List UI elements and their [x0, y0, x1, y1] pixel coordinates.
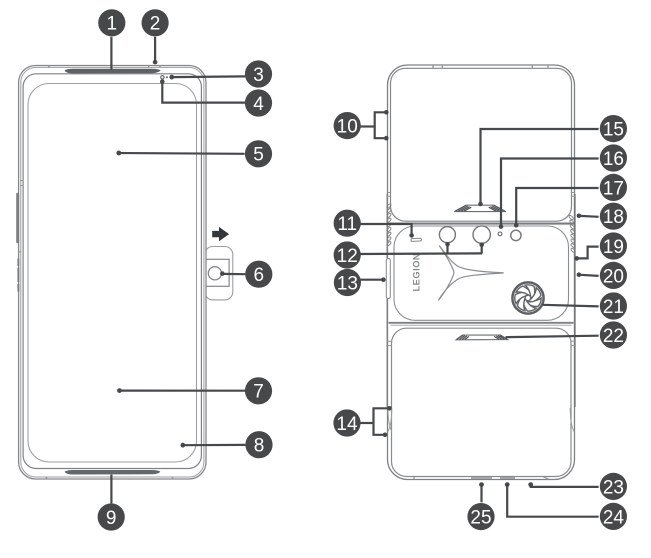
leader end dots (back)	[381, 110, 581, 487]
middle camera strip	[394, 226, 569, 320]
label 2	[142, 9, 169, 36]
label 7	[245, 377, 272, 404]
label 8	[245, 431, 272, 458]
leader 7	[120, 390, 246, 392]
back frame side ticks	[387, 192, 391, 194]
antenna tick near mic	[148, 66, 150, 68]
camera module lens	[208, 267, 221, 280]
label 13	[334, 269, 361, 296]
svg-text:1: 1	[107, 14, 118, 35]
mic hook (11 target)	[411, 238, 422, 241]
svg-text:6: 6	[254, 265, 265, 286]
leader 2	[154, 37, 156, 61]
label 16	[600, 144, 627, 171]
earpiece speaker	[65, 69, 161, 74]
pop-up camera seam (15 target)	[454, 205, 506, 211]
SIM tray (left edge)	[386, 259, 390, 299]
arrow (pop-up direction)	[212, 227, 229, 241]
svg-text:2: 2	[150, 14, 161, 35]
svg-text:16: 16	[603, 149, 624, 170]
leader 23	[531, 485, 599, 487]
svg-text:5: 5	[253, 145, 264, 166]
rear camera 1	[439, 227, 455, 243]
label 25	[467, 503, 494, 530]
leader 3	[172, 75, 246, 78]
label 22	[600, 321, 627, 348]
bottom speaker grille (22 target)	[456, 335, 508, 340]
svg-text:LEGION: LEGION	[412, 253, 422, 292]
back body outer outline	[388, 65, 575, 480]
back top edge antenna ticks	[432, 65, 434, 68]
label 3	[245, 60, 272, 87]
sensor dot	[166, 76, 168, 78]
leader 25	[480, 485, 482, 503]
svg-text:22: 22	[603, 326, 624, 347]
label 6	[245, 261, 272, 288]
volume key (left edge)	[16, 193, 19, 243]
left side vent	[386, 203, 391, 246]
camera module inner square	[206, 259, 229, 286]
front body outer outline	[19, 66, 206, 480]
svg-text:23: 23	[603, 477, 624, 498]
svg-text:19: 19	[603, 237, 624, 258]
svg-text:15: 15	[603, 120, 624, 141]
label 15	[600, 115, 627, 142]
svg-text:10: 10	[337, 117, 358, 138]
left edge slot segments	[17, 259, 19, 267]
front screen	[28, 84, 197, 463]
label 14	[333, 409, 360, 436]
label 9	[98, 503, 125, 530]
leader 13	[358, 279, 382, 281]
front bezel line	[23, 74, 201, 469]
svg-text:24: 24	[603, 507, 625, 528]
Legion Y logo	[438, 246, 503, 301]
antenna tick top-left	[48, 66, 50, 68]
svg-text:13: 13	[337, 273, 358, 294]
svg-text:7: 7	[253, 382, 264, 403]
leader 4	[162, 82, 245, 102]
pop-up camera module (right side of front phone)	[205, 247, 233, 300]
leader 24	[507, 485, 598, 517]
label 10	[334, 112, 361, 139]
leader 17	[516, 188, 598, 224]
glass merge curves bottom corners	[388, 408, 392, 432]
antenna tick bottom edge	[46, 477, 48, 479]
label 12	[334, 241, 361, 268]
leader 18	[580, 215, 599, 218]
leader 10	[360, 125, 375, 127]
bottom speaker	[65, 470, 161, 475]
leader end dots (front)	[116, 60, 224, 448]
front body second outline	[21, 67, 204, 477]
svg-text:21: 21	[603, 297, 624, 318]
svg-text:17: 17	[603, 178, 624, 199]
leader 1	[110, 37, 112, 70]
leader 12	[360, 252, 482, 255]
leader 14	[361, 422, 374, 424]
right side vent	[569, 215, 576, 253]
leader 11	[360, 224, 412, 234]
label 19	[600, 232, 627, 259]
svg-text:18: 18	[603, 207, 624, 228]
label 18	[600, 203, 627, 230]
label 5	[245, 140, 272, 167]
leader 16	[501, 159, 599, 226]
leader 19	[578, 247, 599, 259]
label 24	[600, 503, 627, 530]
laser sensor (16 target)	[498, 232, 502, 236]
leader 6	[222, 273, 245, 276]
back bottom glass panel	[392, 328, 572, 476]
svg-text:9: 9	[106, 508, 117, 529]
divider bottom dark	[389, 322, 574, 324]
middle frame dark rails	[574, 194, 576, 407]
label 20	[600, 262, 627, 289]
label 4	[245, 89, 272, 116]
svg-text:20: 20	[603, 266, 624, 287]
front camera sensor (ring)	[161, 76, 164, 79]
fan (21 target)	[512, 282, 543, 313]
svg-text:8: 8	[254, 436, 265, 457]
side tick left lower	[18, 251, 21, 253]
divider bottom light	[391, 324, 572, 326]
svg-text:14: 14	[336, 414, 358, 435]
leader 8	[183, 444, 246, 447]
rear camera 2	[473, 226, 490, 243]
leader 15	[481, 129, 599, 203]
back top glass panel	[391, 68, 572, 221]
label 1	[98, 9, 125, 36]
leader 20	[580, 275, 599, 276]
svg-text:11: 11	[337, 214, 357, 235]
label 11	[334, 210, 361, 237]
label 17	[600, 174, 627, 201]
svg-text:25: 25	[470, 508, 491, 529]
leader 21	[542, 305, 598, 307]
leader 9	[110, 475, 112, 504]
svg-text:3: 3	[253, 65, 264, 86]
label 21	[600, 292, 627, 319]
leader 5	[119, 152, 245, 155]
svg-text:12: 12	[337, 246, 358, 267]
bottom edge port slots	[471, 477, 492, 479]
svg-text:4: 4	[253, 94, 264, 115]
divider top dark	[389, 223, 574, 225]
bottom edge antenna tick	[413, 477, 415, 480]
leader 22	[506, 336, 599, 338]
side tick left upper	[20, 180, 23, 182]
label 23	[600, 473, 627, 500]
flash (17 target)	[511, 230, 521, 240]
